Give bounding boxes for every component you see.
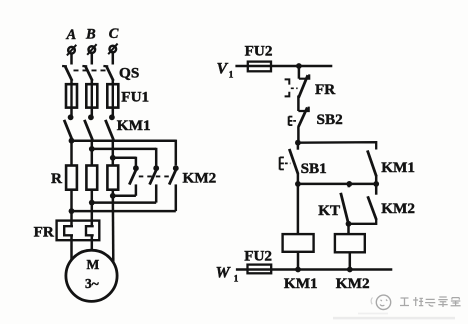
wire FR to motor (A) xyxy=(70,235,73,260)
wire bypass column C bottom xyxy=(135,184,138,195)
coil KM1 xyxy=(283,234,314,252)
contactor KM2 aux contact (NO) xyxy=(349,184,377,224)
wire node2 to KM1 coil xyxy=(297,184,300,234)
wire phase C, KM1 to R xyxy=(112,139,115,165)
wire bypass column B down xyxy=(155,148,158,166)
node 3 (KT tap) xyxy=(346,181,352,187)
wire bypass column A down xyxy=(175,140,178,166)
contactor KM1 main contact A xyxy=(64,114,73,139)
node 4 (KM1 aux bottom) xyxy=(373,181,379,187)
svg-text:KM2: KM2 xyxy=(381,200,415,217)
svg-text:FU2: FU2 xyxy=(244,247,272,264)
label KT xyxy=(318,202,340,219)
pushbutton SB1 (NO) xyxy=(289,143,298,174)
SB2 button cap xyxy=(289,116,298,125)
node top junction xyxy=(296,63,302,69)
watermark logo xyxy=(371,295,391,309)
label FR (control) xyxy=(315,81,336,98)
wire V1 top rail xyxy=(235,65,332,68)
wire QS to FU1 (C) xyxy=(112,80,115,84)
wire phase B, KM1 to R xyxy=(91,139,94,165)
label KM2 (coil) xyxy=(336,275,370,292)
wire terminal-B to QS xyxy=(91,53,94,65)
wire FU1 to KM1 (A) xyxy=(70,108,73,116)
terminal C xyxy=(108,44,117,55)
wire bypass bottom rail B xyxy=(92,201,156,204)
svg-text:KM1: KM1 xyxy=(284,275,318,292)
node C-bottom xyxy=(110,193,116,199)
switch QS pole A xyxy=(62,66,72,81)
wire bypass top rail A xyxy=(72,139,176,142)
switch QS pole B xyxy=(82,66,92,81)
wire bypass bottom rail A xyxy=(72,210,176,213)
node 2 (SB1 bottom) xyxy=(295,181,301,187)
node KM2 coil bus xyxy=(347,267,353,273)
FR NC contact (control) xyxy=(299,74,310,97)
fuse FU1 element C xyxy=(107,84,118,107)
contactor KM1 main contact C xyxy=(105,114,114,139)
wire FU1 to KM1 (C) xyxy=(112,108,115,116)
contactor KM1 aux contact (NO) xyxy=(367,150,376,184)
wire KM1 coil to bus xyxy=(297,252,300,270)
label FU1 xyxy=(121,89,149,106)
thermal relay FR box xyxy=(57,221,100,241)
wire bypass top rail C xyxy=(113,157,136,160)
label FR (left) xyxy=(34,224,55,241)
QS linkage (dashed) xyxy=(74,69,108,71)
svg-text:KM2: KM2 xyxy=(183,170,217,187)
wire SB1 to node2 xyxy=(297,174,300,184)
wire bottom rail sec.1 xyxy=(298,183,376,186)
label SB2 xyxy=(317,111,343,128)
label KM2 (bypass) xyxy=(183,170,217,187)
svg-text:W: W xyxy=(216,265,232,282)
contactor KM2 bypass contact (B) xyxy=(150,165,160,184)
relay KT contact (NO, delayed) xyxy=(341,184,349,224)
svg-text:QS: QS xyxy=(119,65,139,82)
label KM1 (aux) xyxy=(381,159,415,176)
wire terminal-A to QS xyxy=(70,54,73,65)
svg-text:C: C xyxy=(109,26,119,42)
label FU2 (top) xyxy=(245,43,273,60)
wire QS to FU1 (A) xyxy=(70,80,73,84)
label R xyxy=(51,170,63,187)
wire bypass top rail B xyxy=(92,148,156,151)
pushbutton SB2 (NC) xyxy=(298,107,308,127)
fuse FU1 element B xyxy=(86,84,97,107)
wire below R (C) to motor xyxy=(112,190,115,263)
svg-text:SB1: SB1 xyxy=(301,160,327,177)
fuse FU2 (top) xyxy=(248,62,271,72)
wire terminal-C to QS xyxy=(112,52,115,64)
wire bypass column B bottom xyxy=(155,184,158,202)
contactor KM1 main contact B xyxy=(84,114,93,139)
fuse FU2 (bottom) xyxy=(248,265,272,274)
FR actuator (bimetal) xyxy=(285,79,298,96)
resistor R element B xyxy=(86,166,97,190)
svg-text:FU1: FU1 xyxy=(121,89,149,106)
wire bypass bottom rail C xyxy=(113,195,136,198)
label FU2 (bottom) xyxy=(244,247,272,264)
terminal B xyxy=(87,44,96,55)
node 5 (KT/KM2 join) xyxy=(346,221,352,227)
KM2 linkage (dashed) xyxy=(139,175,172,177)
motor label 3~ xyxy=(85,276,99,291)
wire QS to FU1 (B) xyxy=(91,80,94,84)
SB1 button cap xyxy=(280,157,291,169)
phase label A xyxy=(66,27,77,43)
FR heater element A xyxy=(64,226,73,235)
svg-text:V: V xyxy=(217,61,229,78)
wire below R (A) xyxy=(70,190,73,227)
motor label M xyxy=(87,257,100,272)
motor M circle xyxy=(66,250,117,301)
coil KM2 xyxy=(335,234,365,252)
node B-bottom xyxy=(89,200,95,206)
label W1 xyxy=(216,265,239,285)
svg-text:KM1: KM1 xyxy=(381,159,415,176)
node A-bottom xyxy=(69,208,75,214)
switch QS pole C xyxy=(103,66,113,81)
wire FR to motor (B) xyxy=(91,235,94,250)
svg-text:FR: FR xyxy=(34,224,55,241)
wire KM2 coil to bus xyxy=(349,252,352,269)
wire phase A, KM1 to R xyxy=(70,139,73,165)
FR heater element B xyxy=(86,226,94,235)
svg-text:KM2: KM2 xyxy=(336,275,370,292)
contactor KM2 bypass contact (A) xyxy=(169,165,179,184)
node A-top xyxy=(69,138,75,144)
wire FU1 to KM1 (B) xyxy=(91,108,94,116)
node B-top xyxy=(89,146,95,152)
svg-text:B: B xyxy=(85,27,96,43)
svg-text:M: M xyxy=(87,257,100,272)
label KM1 (main) xyxy=(117,117,151,134)
wire junction to FR contact xyxy=(298,66,301,79)
svg-text:R: R xyxy=(51,170,63,187)
wire bypass column A bottom xyxy=(175,184,178,211)
svg-text:KT: KT xyxy=(318,202,340,219)
node 1 (SB1 top) xyxy=(295,140,301,146)
resistor R element A xyxy=(66,166,77,190)
wire node1 to KM1 branch xyxy=(298,142,376,149)
resistor R element C xyxy=(107,166,118,190)
svg-text:1: 1 xyxy=(234,274,239,284)
wire W1 bottom bus xyxy=(236,268,392,271)
label SB1 xyxy=(301,160,327,177)
label V1 xyxy=(217,61,234,81)
wire below R (B) xyxy=(91,190,94,227)
wire FR to SB2 xyxy=(297,96,300,112)
svg-text:KM1: KM1 xyxy=(117,117,151,134)
fuse FU1 element A xyxy=(66,84,77,107)
node KM1 coil bus xyxy=(295,267,301,273)
phase label C xyxy=(109,26,119,42)
wire SB2 to node1 xyxy=(297,126,300,142)
label KM1 (coil) xyxy=(284,275,318,292)
terminal A xyxy=(67,45,76,56)
node C-top xyxy=(110,155,116,161)
label KM2 (aux) xyxy=(381,200,415,217)
svg-text:FR: FR xyxy=(315,81,336,98)
phase label B xyxy=(85,27,96,43)
wire node5 to KM2 coil xyxy=(347,224,350,234)
svg-text:SB2: SB2 xyxy=(317,111,343,128)
svg-text:A: A xyxy=(66,27,77,43)
svg-text:FU2: FU2 xyxy=(245,43,273,60)
wire bypass column C down xyxy=(135,157,138,166)
contactor KM2 bypass contact (C) xyxy=(129,165,139,184)
svg-text:1: 1 xyxy=(229,70,234,80)
watermark text 工控云学堂 (stylised) xyxy=(400,297,461,307)
svg-text:3~: 3~ xyxy=(85,276,99,291)
label QS xyxy=(119,65,139,82)
